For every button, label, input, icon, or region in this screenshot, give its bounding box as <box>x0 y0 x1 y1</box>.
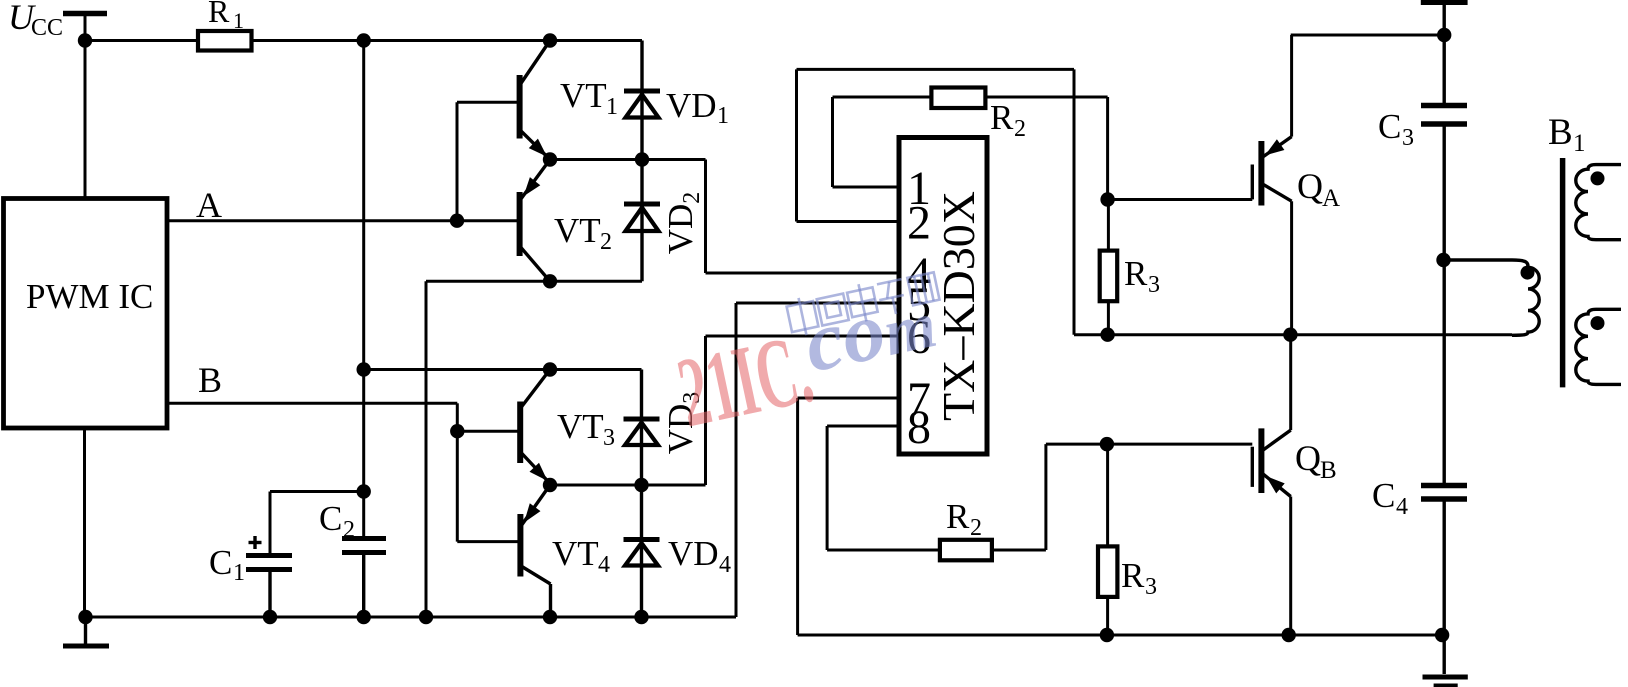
label VT2 <box>554 211 612 255</box>
wire VT3 rail <box>364 368 642 371</box>
label VD4 <box>668 534 731 578</box>
pin 4 label <box>907 248 931 301</box>
svg-text:2: 2 <box>1014 116 1026 142</box>
node bottom rail VT4 <box>543 610 557 624</box>
node top right <box>1437 28 1451 42</box>
label QB <box>1295 438 1337 484</box>
wire base tie down <box>456 431 459 541</box>
svg-text:1: 1 <box>233 560 245 586</box>
transistor VT1 <box>520 41 550 160</box>
pin 1 label <box>907 162 931 215</box>
resistor R3 upper <box>1100 251 1118 302</box>
transistor VT2 <box>520 160 550 282</box>
node B1 secondary bottom phase dot <box>1591 316 1605 330</box>
node bottom rail C2 <box>357 610 371 624</box>
resistor R2 upper <box>931 88 985 109</box>
wire Ucc stub <box>84 14 87 201</box>
svg-text:CC: CC <box>31 15 63 41</box>
wire VT2 collector <box>426 280 642 283</box>
label C1 plus <box>249 536 262 549</box>
label B1 <box>1548 112 1586 157</box>
resistor R3 lower <box>1098 546 1117 597</box>
label VT3 <box>557 407 615 451</box>
label R2 upper <box>990 98 1026 142</box>
label R2 lower <box>946 497 982 541</box>
pin 6 label <box>907 311 931 364</box>
node B1 secondary top phase dot <box>1591 171 1605 185</box>
svg-text:VT: VT <box>557 407 604 446</box>
svg-text:2: 2 <box>970 515 982 541</box>
svg-text:VT: VT <box>554 211 601 250</box>
wire R2 lower to gate <box>992 444 1252 550</box>
wire R3 lower leads <box>1106 444 1109 635</box>
label VT1 <box>560 76 618 120</box>
svg-text:A: A <box>1322 185 1340 212</box>
inductor B1 primary <box>1444 260 1540 335</box>
svg-text:B: B <box>1320 457 1337 484</box>
node B1 primary phase dot <box>1521 266 1535 280</box>
node VD3 anode <box>634 478 648 492</box>
wire bottom rail left <box>86 616 737 619</box>
node B base tie <box>450 424 464 438</box>
wire VT3 base <box>457 430 520 433</box>
node QA source <box>1283 328 1297 342</box>
label C1 <box>209 543 245 586</box>
node bottom rail x426 <box>419 610 433 624</box>
wire VT1 base <box>457 101 520 104</box>
svg-text:R: R <box>990 98 1014 137</box>
svg-text:C: C <box>1378 107 1401 146</box>
inductor B1 secondary top <box>1576 165 1621 240</box>
watermark 21ic <box>666 268 959 448</box>
power bar top right <box>1421 3 1468 36</box>
label VD3 <box>661 392 705 455</box>
node bottom rail VD4 <box>634 610 648 624</box>
wire pin7 <box>798 398 1443 635</box>
wire node A rail <box>1074 333 1512 336</box>
wire pin6 link <box>706 336 900 485</box>
node VD1 anode <box>635 152 649 166</box>
transistor QB <box>1252 335 1290 635</box>
svg-text:1: 1 <box>606 94 618 120</box>
svg-text:4: 4 <box>1396 494 1408 520</box>
power bar Ucc <box>63 11 107 17</box>
label R3 upper <box>1124 254 1160 298</box>
node VT2 collector <box>543 274 557 288</box>
pin 7 label <box>907 373 931 426</box>
wire PWM IC bottom stub <box>83 428 86 617</box>
svg-text:VD: VD <box>668 534 719 573</box>
transistor VT3 <box>520 370 550 484</box>
wire C1 branch <box>270 492 364 554</box>
node top rail x550 <box>543 33 557 47</box>
svg-text:R: R <box>1124 254 1148 293</box>
node VT3 collector rail <box>543 362 557 376</box>
label Ucc <box>8 0 63 41</box>
wire pin5 link <box>736 303 899 617</box>
svg-text:2: 2 <box>600 229 612 255</box>
node VT1 emitter <box>543 152 557 166</box>
svg-text:4: 4 <box>598 552 610 578</box>
node VT3 emitter <box>543 478 557 492</box>
svg-text:R: R <box>946 497 970 536</box>
wire top rail left <box>85 39 198 42</box>
label QA <box>1297 166 1340 212</box>
svg-text:1: 1 <box>1573 130 1586 157</box>
ground left <box>63 617 109 646</box>
label VT4 <box>552 534 610 578</box>
label C3 <box>1378 107 1414 151</box>
pin 2 label <box>907 197 931 250</box>
wire x363 vertical <box>362 41 365 538</box>
label B <box>198 360 222 400</box>
wire base tie up <box>456 102 459 221</box>
label PWM IC <box>26 277 153 316</box>
resistor R2 lower <box>940 540 992 561</box>
diode VD3 <box>624 370 660 486</box>
svg-text:PWM IC: PWM IC <box>26 277 153 316</box>
wire QA gate <box>1108 198 1253 201</box>
wire B down <box>456 403 459 431</box>
label C4 <box>1372 476 1408 520</box>
wire A <box>167 219 520 222</box>
svg-text:TX–KD30X: TX–KD30X <box>933 191 984 421</box>
wire emitter to pin4 <box>706 160 900 274</box>
wire x426 down <box>425 281 428 617</box>
node QB emitter rail <box>1282 628 1296 642</box>
wire pin2 <box>797 69 1075 334</box>
ground right <box>1423 635 1468 686</box>
svg-text:A: A <box>196 185 222 225</box>
diode VD2 <box>624 160 660 282</box>
svg-text:B: B <box>198 360 222 400</box>
transistor QA <box>1252 35 1291 335</box>
node QA gate <box>1100 192 1114 206</box>
label A <box>196 185 222 225</box>
label VD2 <box>661 192 705 255</box>
svg-text:C: C <box>209 543 232 582</box>
svg-text:VD: VD <box>666 86 717 125</box>
wire R3 upper leads <box>1107 200 1110 335</box>
svg-text:VT: VT <box>552 534 599 573</box>
node R3 lower bottom <box>1100 628 1114 642</box>
label TX-KD30X <box>933 191 984 421</box>
label R3 lower <box>1121 556 1157 600</box>
IC U1 TX-KD30X box <box>899 138 987 455</box>
PWM IC box <box>4 199 168 429</box>
node x363 y369 <box>357 362 371 376</box>
svg-text:1: 1 <box>717 103 729 129</box>
node Ucc junction <box>78 33 92 47</box>
svg-text:3: 3 <box>1148 272 1160 298</box>
node A base tie <box>450 214 464 228</box>
diode VD1 <box>624 41 660 160</box>
label C2 <box>319 499 355 543</box>
svg-text:R: R <box>1121 556 1145 595</box>
svg-text:1: 1 <box>233 8 244 33</box>
wire B <box>167 402 457 405</box>
wire VT4 base <box>457 540 520 543</box>
wire top rail <box>252 39 643 42</box>
capacitor C4 <box>1421 260 1467 635</box>
node R3 upper bottom <box>1100 328 1114 342</box>
pin 5 label <box>907 278 931 331</box>
label R1 <box>208 0 244 33</box>
svg-text:C: C <box>319 499 342 538</box>
node bottom rail gnd <box>78 610 92 624</box>
svg-text:Q: Q <box>1295 438 1321 478</box>
svg-text:Q: Q <box>1297 166 1323 206</box>
svg-text:2: 2 <box>343 517 355 543</box>
svg-text:3: 3 <box>603 425 615 451</box>
transistor VT4 <box>520 485 550 617</box>
pin 8 label <box>907 401 931 454</box>
svg-text:R: R <box>208 0 230 29</box>
capacitor C1 <box>246 556 292 618</box>
node QB gate <box>1100 437 1114 451</box>
wire pin1 <box>833 97 932 187</box>
svg-text:3: 3 <box>1402 125 1414 151</box>
capacitor C2 <box>342 539 386 618</box>
svg-text:4: 4 <box>719 552 731 578</box>
svg-text:8: 8 <box>907 401 931 454</box>
transformer core <box>1560 158 1566 387</box>
diode VD4 <box>624 485 660 617</box>
resistor R1 <box>198 31 252 51</box>
wire R2 to gate <box>985 97 1107 200</box>
wire output2 <box>550 484 706 487</box>
node bottom rail C1 <box>263 610 277 624</box>
wire pin8 <box>827 426 940 550</box>
node x363 y491 <box>357 484 371 498</box>
svg-text:2: 2 <box>907 197 931 250</box>
label VD1 <box>666 86 729 129</box>
inductor B1 secondary bottom <box>1576 309 1621 384</box>
svg-text:B: B <box>1548 112 1573 153</box>
node primary tap <box>1436 253 1450 267</box>
wire QA drain <box>1291 34 1445 37</box>
capacitor C3 <box>1421 35 1467 260</box>
node C4 ground <box>1435 628 1449 642</box>
wire emitter junction <box>550 158 706 161</box>
node top rail x363 <box>357 33 371 47</box>
svg-text:3: 3 <box>1145 574 1157 600</box>
svg-text:VT: VT <box>560 76 607 115</box>
svg-text:C: C <box>1372 476 1395 515</box>
